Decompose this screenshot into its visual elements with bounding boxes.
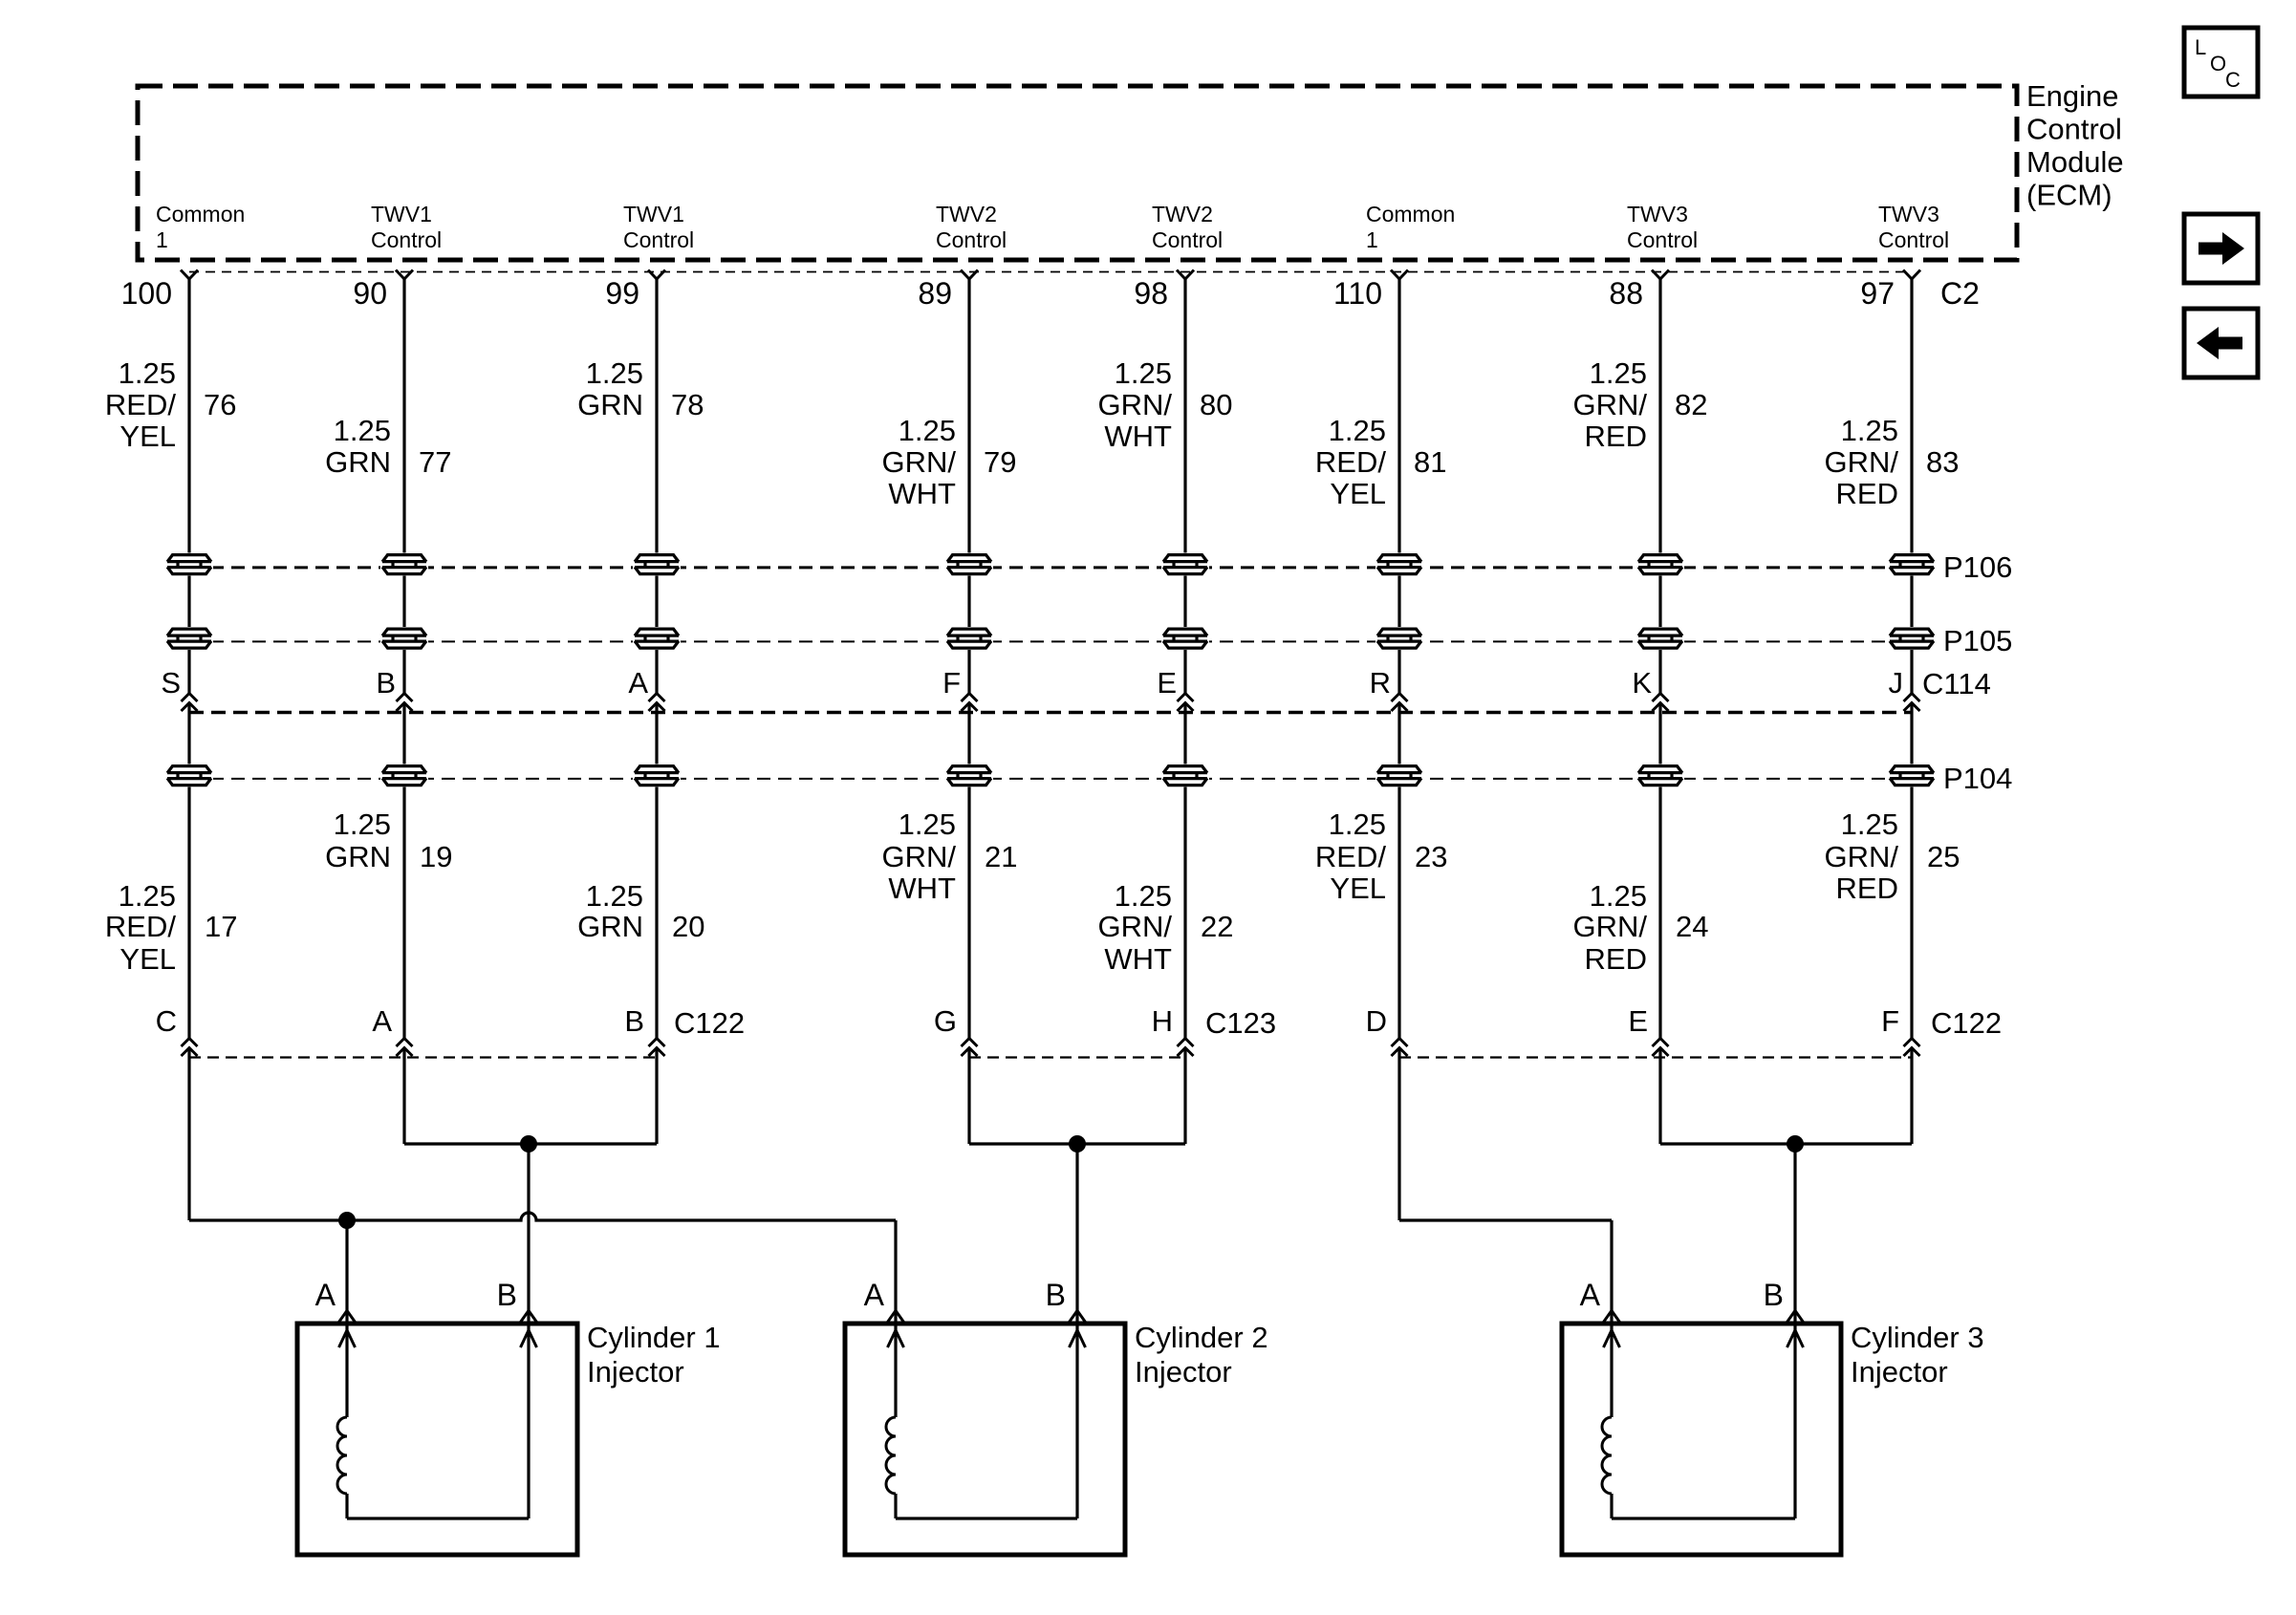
cylinder 3 injector internal wire A with arrowhead: [1604, 1324, 1620, 1417]
C114 terminal R chevrons: [1392, 694, 1408, 712]
wire from C123 H terminal down (wire 5): [1183, 1048, 1186, 1145]
svg-text:Control: Control: [936, 227, 1007, 252]
cylinder 2 injector internal wire bottom and B with arrowhead: [896, 1324, 1086, 1518]
wire from C122 A terminal down (wire 2): [402, 1048, 405, 1145]
svg-text:F: F: [942, 666, 961, 700]
junction dot TWV3: [1787, 1135, 1804, 1152]
wire 8 color label 1.25 GRN/ RED circuit 83: [1825, 414, 1960, 510]
C122/C123 terminal E chevrons: [1653, 1039, 1669, 1057]
svg-text:Cylinder 1: Cylinder 1: [587, 1321, 721, 1354]
wire 8 segment C2 to P106: [1910, 279, 1913, 554]
svg-text:B: B: [1046, 1278, 1066, 1312]
grommet P104 wire 2: [380, 764, 428, 787]
wire 4 segment P106 to P105: [967, 575, 970, 629]
ECM pin label Common 1 (wire 6): [1366, 202, 1455, 252]
connector C2 face dashed line: [189, 271, 1912, 273]
right arrow navigation box: [2184, 214, 2258, 283]
svg-text:83: 83: [1926, 445, 1959, 479]
wire 7 segment P106 to P105: [1658, 575, 1661, 629]
svg-text:L: L: [2195, 35, 2206, 59]
grommet P105 wire 1: [165, 627, 213, 650]
svg-text:19: 19: [420, 840, 452, 873]
svg-text:RED/: RED/: [1315, 445, 1386, 479]
svg-text:81: 81: [1414, 445, 1446, 479]
svg-text:F: F: [1881, 1004, 1899, 1038]
svg-text:YEL: YEL: [119, 420, 176, 453]
wire 7 segment P104 to C122: [1658, 786, 1661, 1039]
svg-text:Control: Control: [371, 227, 442, 252]
svg-text:77: 77: [419, 445, 451, 479]
svg-text:1.25: 1.25: [899, 807, 956, 841]
svg-text:1.25: 1.25: [586, 356, 643, 390]
wire junction to cylinder 1 injector B: [527, 1144, 530, 1324]
svg-text:GRN: GRN: [577, 388, 643, 421]
svg-text:21: 21: [985, 840, 1017, 873]
svg-text:D: D: [1366, 1004, 1387, 1038]
wire 4 segment C114 to P104: [967, 703, 970, 765]
wire 6 common down from C122 D terminal: [1397, 1048, 1400, 1221]
svg-text:P106: P106: [1943, 550, 2012, 584]
wire 3 segment P105 to C114: [655, 649, 658, 694]
wire 1 segment C114 to P104: [187, 703, 190, 765]
svg-text:Injector: Injector: [1851, 1355, 1948, 1389]
grommet row P104 dashed line: [189, 778, 1912, 780]
svg-text:GRN: GRN: [577, 910, 643, 943]
grommet P105 wire 7: [1636, 627, 1684, 650]
junction dot TWV1: [520, 1135, 537, 1152]
svg-text:Control: Control: [1627, 227, 1698, 252]
wire 3 segment C114 to P104: [655, 703, 658, 765]
svg-text:TWV2: TWV2: [1152, 202, 1213, 226]
C122/C123 terminal G chevrons: [962, 1039, 978, 1057]
C114 terminal K chevrons: [1653, 694, 1669, 712]
svg-text:1: 1: [1366, 227, 1378, 252]
svg-text:TWV2: TWV2: [936, 202, 997, 226]
svg-text:1.25: 1.25: [899, 414, 956, 447]
svg-text:100: 100: [121, 276, 172, 311]
grommet P106 wire 3: [633, 553, 681, 576]
wire 7 color label 1.25 GRN/ RED circuit 82: [1573, 356, 1708, 453]
svg-text:GRN/: GRN/: [1098, 910, 1173, 943]
svg-text:Common: Common: [1366, 202, 1455, 226]
ECM dashed outline box: [138, 86, 2017, 260]
svg-text:H: H: [1152, 1004, 1173, 1038]
svg-text:1: 1: [156, 227, 168, 252]
svg-text:1.25: 1.25: [1841, 414, 1898, 447]
wire 5 segment C2 to P106: [1183, 279, 1186, 554]
svg-text:RED: RED: [1836, 872, 1898, 905]
wire 1 lower color label 1.25 RED/ YEL circuit 17: [105, 879, 238, 976]
svg-text:YEL: YEL: [119, 942, 176, 976]
junction dot TWV2: [1069, 1135, 1086, 1152]
svg-text:GRN/: GRN/: [882, 445, 957, 479]
svg-text:E: E: [1157, 666, 1177, 700]
joining wire TWV1 pair: [404, 1142, 657, 1145]
svg-text:1.25: 1.25: [1115, 356, 1172, 390]
cylinder 2 injector pin B terminal chevron: [1070, 1311, 1086, 1323]
svg-text:C122: C122: [674, 1006, 745, 1040]
cylinder 3 injector label: [1851, 1321, 1984, 1389]
ECM pin label TWV1 Control (wire 2): [371, 202, 442, 252]
svg-text:B: B: [497, 1278, 517, 1312]
svg-text:1.25: 1.25: [119, 356, 176, 390]
grommet P104 wire 8: [1888, 764, 1936, 787]
svg-text:A: A: [1580, 1278, 1601, 1312]
svg-text:RED/: RED/: [1315, 840, 1386, 873]
wire 3 lower color label 1.25 GRN circuit 20: [577, 879, 704, 943]
connector C2 pin 90 terminal chevron: [396, 270, 413, 280]
grommet P105 wire 2: [380, 627, 428, 650]
svg-text:O: O: [2210, 52, 2226, 75]
svg-text:25: 25: [1927, 840, 1960, 873]
cylinder 1 injector coil: [337, 1417, 347, 1494]
svg-text:1.25: 1.25: [1841, 807, 1898, 841]
C122/C123 terminal H chevrons: [1178, 1039, 1194, 1057]
wire 5 segment P104 to C122: [1183, 786, 1186, 1039]
svg-text:1.25: 1.25: [334, 414, 391, 447]
grommet P106 wire 4: [945, 553, 993, 576]
grommet row P106 dashed line: [189, 566, 1912, 569]
svg-text:Engine: Engine: [2026, 79, 2119, 113]
grommet P104 wire 4: [945, 764, 993, 787]
svg-text:J: J: [1889, 666, 1904, 700]
svg-text:98: 98: [1134, 276, 1168, 311]
C114 terminal E chevrons: [1178, 694, 1194, 712]
svg-text:Control: Control: [623, 227, 694, 252]
connector C122 (right) dashed line: [1399, 1056, 1912, 1058]
svg-text:G: G: [934, 1004, 957, 1038]
wire from C122 F terminal down (wire 8): [1910, 1048, 1913, 1145]
svg-text:C123: C123: [1205, 1006, 1276, 1040]
cylinder 1 injector pin B terminal chevron: [521, 1311, 537, 1323]
wire 3 segment P104 to C122: [655, 786, 658, 1039]
connector C114 dashed line: [189, 711, 1912, 715]
grommet P104 wire 3: [633, 764, 681, 787]
svg-text:GRN/: GRN/: [1573, 910, 1648, 943]
wire 3 segment P106 to P105: [655, 575, 658, 629]
cylinder 2 injector label: [1135, 1321, 1268, 1389]
connector C2 pin 110 terminal chevron: [1391, 270, 1408, 280]
svg-text:79: 79: [984, 445, 1016, 479]
connector C2 pin 89 terminal chevron: [961, 270, 978, 280]
wire 6 color label 1.25 RED/ YEL circuit 81: [1315, 414, 1447, 510]
svg-text:K: K: [1632, 666, 1652, 700]
C114 terminal A chevrons: [649, 694, 665, 712]
svg-text:78: 78: [671, 388, 704, 421]
grommet P105 wire 8: [1888, 627, 1936, 650]
wire 8 segment P104 to C122: [1910, 786, 1913, 1039]
wire 3 segment C2 to P106: [655, 279, 658, 554]
wire drop to cylinder 3 injector A: [1610, 1220, 1613, 1324]
grommet P104 wire 5: [1161, 764, 1209, 787]
svg-text:90: 90: [353, 276, 387, 311]
ECM pin label TWV3 Control (wire 7): [1627, 202, 1698, 252]
C114 terminal S chevrons: [182, 694, 198, 712]
svg-text:TWV1: TWV1: [623, 202, 684, 226]
svg-text:1.25: 1.25: [1329, 414, 1386, 447]
wire 5 segment C114 to P104: [1183, 703, 1186, 765]
grommet P106 wire 1: [165, 553, 213, 576]
svg-text:Injector: Injector: [587, 1355, 684, 1389]
junction dot common to cylinder 1 injector A: [338, 1212, 356, 1229]
wire 6 segment P104 to C122: [1397, 786, 1400, 1039]
svg-text:WHT: WHT: [888, 477, 956, 510]
svg-text:Common: Common: [156, 202, 245, 226]
wire 5 color label 1.25 GRN/ WHT circuit 80: [1098, 356, 1233, 453]
svg-text:GRN: GRN: [325, 445, 391, 479]
wire drop to cylinder 2 injector A: [894, 1220, 897, 1324]
svg-text:Control: Control: [1878, 227, 1949, 252]
connector C2 pin 99 terminal chevron: [648, 270, 665, 280]
wire 2 color label 1.25 GRN circuit 77: [325, 414, 451, 479]
wire 1 common down from C122 C terminal: [187, 1048, 190, 1221]
svg-text:RED: RED: [1836, 477, 1898, 510]
C114 terminal J chevrons: [1904, 694, 1920, 712]
wire 1 color label 1.25 RED/ YEL circuit 76: [105, 356, 237, 453]
svg-text:C122: C122: [1931, 1006, 2002, 1040]
C122/C123 terminal F chevrons: [1904, 1039, 1920, 1057]
svg-text:24: 24: [1676, 910, 1708, 943]
wire 1 segment P104 to C122: [187, 786, 190, 1039]
cylinder 1 injector box: [297, 1324, 577, 1555]
cylinder 3 injector coil: [1602, 1417, 1612, 1494]
svg-text:GRN: GRN: [325, 840, 391, 873]
wire 4 segment P104 to C122: [967, 786, 970, 1039]
svg-text:S: S: [161, 666, 181, 700]
svg-text:TWV3: TWV3: [1627, 202, 1688, 226]
grommet P105 wire 4: [945, 627, 993, 650]
svg-text:GRN/: GRN/: [1825, 445, 1899, 479]
cylinder 3 injector pin A terminal chevron: [1604, 1311, 1620, 1323]
connector C2 pin 100 terminal chevron: [181, 270, 198, 280]
cylinder 3 injector pin B terminal chevron: [1787, 1311, 1804, 1323]
wire 5 segment P105 to C114: [1183, 649, 1186, 694]
wire 1 common horizontal run with hop: [189, 1213, 896, 1220]
wire junction to cylinder 3 injector B: [1793, 1144, 1796, 1324]
wire 8 segment P105 to C114: [1910, 649, 1913, 694]
C122/C123 terminal C chevrons: [182, 1039, 198, 1057]
svg-text:20: 20: [672, 910, 704, 943]
svg-text:P104: P104: [1943, 762, 2012, 795]
svg-text:110: 110: [1333, 276, 1382, 311]
svg-text:GRN/: GRN/: [1825, 840, 1899, 873]
grommet P106 wire 8: [1888, 553, 1936, 576]
ECM pin label TWV1 Control (wire 3): [623, 202, 694, 252]
ECM label text: [2026, 79, 2124, 212]
svg-text:C2: C2: [1940, 276, 1980, 311]
svg-text:1.25: 1.25: [586, 879, 643, 913]
wire 6 segment C2 to P106: [1397, 279, 1400, 554]
svg-text:P105: P105: [1943, 624, 2012, 657]
svg-text:88: 88: [1609, 276, 1643, 311]
ECM pin label TWV2 Control (wire 4): [936, 202, 1007, 252]
svg-text:1.25: 1.25: [1590, 879, 1647, 913]
svg-text:RED: RED: [1585, 420, 1647, 453]
grommet P104 wire 1: [165, 764, 213, 787]
svg-text:WHT: WHT: [888, 872, 956, 905]
wire 7 lower color label 1.25 GRN/ RED circuit 24: [1573, 879, 1709, 976]
cylinder 2 injector internal wire A with arrowhead: [888, 1324, 904, 1417]
ECM pin label Common 1 (wire 1): [156, 202, 245, 252]
grommet P106 wire 5: [1161, 553, 1209, 576]
svg-text:89: 89: [918, 276, 952, 311]
cylinder 2 injector box: [845, 1324, 1125, 1555]
wire 7 segment P105 to C114: [1658, 649, 1661, 694]
wire from C122 B terminal down (wire 3): [655, 1048, 658, 1145]
wire 1 segment P106 to P105: [187, 575, 190, 629]
svg-text:A: A: [628, 666, 648, 700]
grommet P106 wire 7: [1636, 553, 1684, 576]
wire 4 color label 1.25 GRN/ WHT circuit 79: [882, 414, 1017, 510]
grommet P105 wire 6: [1375, 627, 1423, 650]
wire 2 segment C114 to P104: [402, 703, 405, 765]
cylinder 1 injector internal wire bottom and B with arrowhead: [347, 1324, 537, 1518]
svg-text:Cylinder 2: Cylinder 2: [1135, 1321, 1268, 1354]
C122/C123 terminal D chevrons: [1392, 1039, 1408, 1057]
svg-text:Cylinder 3: Cylinder 3: [1851, 1321, 1984, 1354]
wire 6 segment C114 to P104: [1397, 703, 1400, 765]
svg-text:(ECM): (ECM): [2026, 179, 2112, 212]
wire 4 segment C2 to P106: [967, 279, 970, 554]
svg-text:E: E: [1628, 1004, 1648, 1038]
svg-text:Control: Control: [2026, 113, 2122, 146]
wire drop to cylinder 1 injector A: [345, 1220, 348, 1324]
joining wire TWV3 pair: [1660, 1142, 1912, 1145]
connector C123 dashed line: [969, 1056, 1185, 1058]
wire from C122 E terminal down (wire 7): [1658, 1048, 1661, 1145]
svg-text:B: B: [376, 666, 396, 700]
cylinder 3 injector internal wire bottom and B with arrowhead: [1612, 1324, 1804, 1518]
cylinder 1 injector label: [587, 1321, 721, 1389]
svg-text:A: A: [315, 1278, 336, 1312]
grommet P104 wire 7: [1636, 764, 1684, 787]
svg-text:82: 82: [1675, 388, 1707, 421]
cylinder 2 injector pin A terminal chevron: [888, 1311, 904, 1323]
svg-text:17: 17: [205, 910, 237, 943]
ECM pin label TWV3 Control (wire 8): [1878, 202, 1949, 252]
wire 1 segment C2 to P106: [187, 279, 190, 554]
wire 2 segment P106 to P105: [402, 575, 405, 629]
svg-text:TWV1: TWV1: [371, 202, 432, 226]
svg-text:97: 97: [1860, 276, 1895, 311]
svg-text:1.25: 1.25: [334, 807, 391, 841]
wire 5 lower color label 1.25 GRN/ WHT circuit 22: [1098, 879, 1234, 976]
left arrow navigation box: [2184, 309, 2258, 377]
wire 2 segment P104 to C122: [402, 786, 405, 1039]
wire 5 segment P106 to P105: [1183, 575, 1186, 629]
connector C2 pin 97 terminal chevron: [1903, 270, 1920, 280]
svg-text:C: C: [156, 1004, 177, 1038]
grommet P105 wire 3: [633, 627, 681, 650]
C114 terminal B chevrons: [397, 694, 413, 712]
svg-text:76: 76: [204, 388, 236, 421]
C122/C123 terminal A chevrons: [397, 1039, 413, 1057]
svg-text:R: R: [1370, 666, 1391, 700]
wire 6 segment P106 to P105: [1397, 575, 1400, 629]
svg-text:TWV3: TWV3: [1878, 202, 1939, 226]
svg-text:RED/: RED/: [105, 388, 176, 421]
grommet P106 wire 6: [1375, 553, 1423, 576]
wire 7 segment C114 to P104: [1658, 703, 1661, 765]
joining wire TWV2 pair: [969, 1142, 1185, 1145]
svg-text:GRN/: GRN/: [882, 840, 957, 873]
svg-text:WHT: WHT: [1104, 420, 1172, 453]
grommet row P105 dashed line: [189, 640, 1912, 642]
svg-text:Module: Module: [2026, 145, 2124, 179]
wire from C123 G terminal down (wire 4): [967, 1048, 970, 1145]
svg-text:1.25: 1.25: [119, 879, 176, 913]
grommet P104 wire 6: [1375, 764, 1423, 787]
wire 2 segment C2 to P106: [402, 279, 405, 554]
cylinder 3 injector box: [1562, 1324, 1841, 1555]
svg-text:RED: RED: [1585, 942, 1647, 976]
wire junction to cylinder 2 injector B: [1075, 1144, 1078, 1324]
grommet P105 wire 5: [1161, 627, 1209, 650]
svg-text:GRN/: GRN/: [1098, 388, 1173, 421]
svg-text:1.25: 1.25: [1590, 356, 1647, 390]
connector C122 (left) dashed line: [189, 1056, 657, 1058]
svg-text:WHT: WHT: [1104, 942, 1172, 976]
wire 1 segment P105 to C114: [187, 649, 190, 694]
C122/C123 terminal B chevrons: [649, 1039, 665, 1057]
LOC reference box: [2184, 28, 2258, 97]
svg-text:B: B: [1764, 1278, 1784, 1312]
wire 8 segment P106 to P105: [1910, 575, 1913, 629]
C114 terminal F chevrons: [962, 694, 978, 712]
svg-text:GRN/: GRN/: [1573, 388, 1648, 421]
cylinder 1 injector pin A terminal chevron: [339, 1311, 356, 1323]
ECM pin label TWV2 Control (wire 5): [1152, 202, 1223, 252]
wire 8 lower color label 1.25 GRN/ RED circuit 25: [1825, 807, 1960, 905]
svg-text:YEL: YEL: [1330, 872, 1386, 905]
svg-text:A: A: [372, 1004, 392, 1038]
wire 4 segment P105 to C114: [967, 649, 970, 694]
cylinder 1 injector internal wire A with arrowhead: [339, 1324, 356, 1417]
svg-text:C: C: [2225, 68, 2241, 92]
svg-text:23: 23: [1415, 840, 1447, 873]
wire 2 lower color label 1.25 GRN circuit 19: [325, 807, 452, 873]
svg-text:99: 99: [605, 276, 639, 311]
svg-text:B: B: [624, 1004, 644, 1038]
wire 6 common horizontal run: [1399, 1218, 1612, 1221]
svg-text:1.25: 1.25: [1115, 879, 1172, 913]
wire 6 lower color label 1.25 RED/ YEL circuit 23: [1315, 807, 1448, 905]
grommet P106 wire 2: [380, 553, 428, 576]
svg-text:Control: Control: [1152, 227, 1223, 252]
svg-text:C114: C114: [1922, 667, 1991, 700]
svg-text:RED/: RED/: [105, 910, 176, 943]
wire 7 segment C2 to P106: [1658, 279, 1661, 554]
svg-text:1.25: 1.25: [1329, 807, 1386, 841]
wire 4 lower color label 1.25 GRN/ WHT circuit 21: [882, 807, 1018, 905]
wire 2 segment P105 to C114: [402, 649, 405, 694]
cylinder 2 injector coil: [886, 1417, 896, 1494]
wire 6 segment P105 to C114: [1397, 649, 1400, 694]
svg-text:22: 22: [1201, 910, 1233, 943]
connector C2 pin 88 terminal chevron: [1652, 270, 1669, 280]
svg-text:Injector: Injector: [1135, 1355, 1232, 1389]
connector C2 pin 98 terminal chevron: [1177, 270, 1194, 280]
svg-text:YEL: YEL: [1330, 477, 1386, 510]
svg-text:80: 80: [1200, 388, 1232, 421]
svg-text:A: A: [864, 1278, 885, 1312]
wire 3 color label 1.25 GRN circuit 78: [577, 356, 704, 421]
wire 8 segment C114 to P104: [1910, 703, 1913, 765]
